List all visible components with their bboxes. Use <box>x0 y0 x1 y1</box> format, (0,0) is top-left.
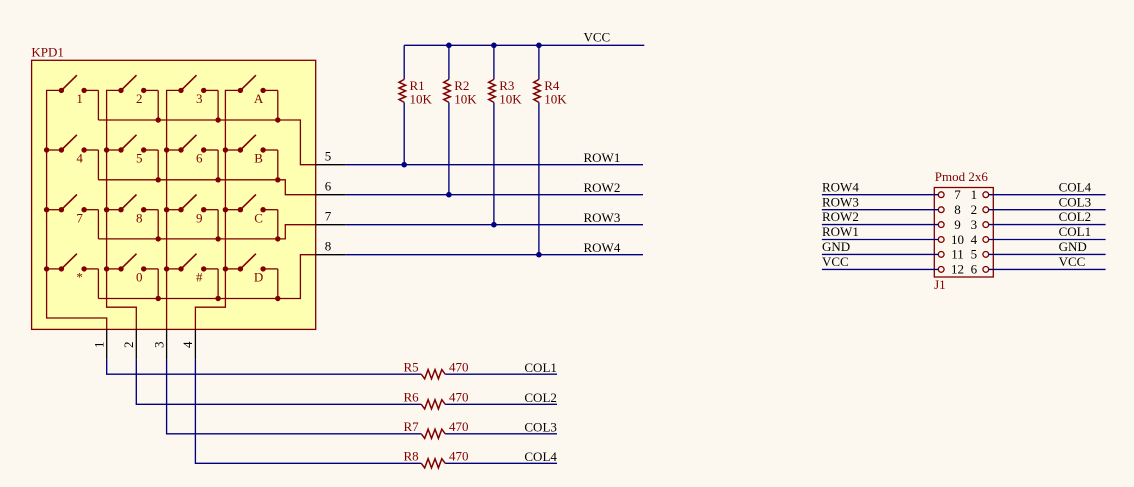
net label COL1 (J1 right) <box>1059 224 1092 239</box>
switch "7" of keypad (row 3, col 1) <box>59 195 99 239</box>
resistor R3 10K pull-up <box>489 45 497 227</box>
switch "#" of keypad (row 4, col 3) <box>178 254 218 299</box>
svg-text:ROW3: ROW3 <box>584 210 621 225</box>
wire net COL4 from pin 4 <box>195 359 557 463</box>
svg-text:8: 8 <box>136 210 143 225</box>
svg-text:ROW1: ROW1 <box>584 150 621 165</box>
svg-text:8: 8 <box>954 202 961 217</box>
resistor R2 10K pull-up <box>444 45 452 197</box>
wire net ROW3 <box>346 224 643 226</box>
net label VCC <box>584 30 611 45</box>
svg-text:10K: 10K <box>499 92 522 107</box>
wire COL2 column bus inside keypad <box>104 90 136 329</box>
net label ROW3 (J1 left) <box>822 194 859 209</box>
connector J1 body (Pmod 2x6) <box>934 188 993 278</box>
svg-text:GND: GND <box>822 239 850 254</box>
svg-text:ROW2: ROW2 <box>584 180 621 195</box>
pin 6 of J1 (right, VCC) <box>971 262 989 277</box>
switch "C" of keypad (row 3, col 4) <box>238 195 278 239</box>
designator label R1 <box>410 78 425 93</box>
switch "6" of keypad (row 2, col 3) <box>178 135 218 180</box>
svg-text:6: 6 <box>196 151 203 166</box>
svg-text:10: 10 <box>951 232 964 247</box>
comment label Pmod 2x6 <box>935 169 989 184</box>
wire net ROW1 <box>346 164 643 166</box>
net label ROW1 (J1 left) <box>822 224 859 239</box>
svg-text:10K: 10K <box>544 92 567 107</box>
svg-text:COL1: COL1 <box>524 360 557 375</box>
pin 1 of J1 (right, COL4) <box>971 187 989 202</box>
net label ROW2 <box>584 180 621 195</box>
svg-text:ROW2: ROW2 <box>822 209 859 224</box>
wire net VCC (J1 right) <box>989 268 1106 270</box>
svg-text:10K: 10K <box>454 92 477 107</box>
wire net COL3 from pin 3 <box>167 359 557 433</box>
svg-text:R8: R8 <box>404 448 419 463</box>
pin 5 of J1 (right, GND) <box>971 247 989 262</box>
net label COL2 <box>524 390 557 405</box>
value label 470 (R7) <box>449 419 469 434</box>
svg-text:4: 4 <box>971 232 978 247</box>
value label 470 (R6) <box>449 389 469 404</box>
svg-text:12: 12 <box>951 262 964 277</box>
value label 10K (R2) <box>454 92 477 107</box>
svg-text:1: 1 <box>92 342 107 349</box>
designator label R5 <box>404 359 419 374</box>
resistor R1 10K pull-up <box>399 45 407 167</box>
net label GND (J1 right) <box>1059 239 1087 254</box>
pin 9 of J1 (left, ROW2) <box>938 217 960 232</box>
value label 470 (R8) <box>449 448 469 463</box>
svg-text:VCC: VCC <box>584 30 611 45</box>
wire ROW2 collect line inside keypad <box>98 177 315 195</box>
wire net COL3 (J1 right) <box>989 209 1106 211</box>
svg-text:R6: R6 <box>404 389 420 404</box>
designator label R8 <box>404 448 419 463</box>
switch "3" of keypad (row 1, col 3) <box>178 75 218 120</box>
svg-text:2: 2 <box>121 342 136 349</box>
resistor R6 470 series <box>421 400 445 409</box>
wire COL3 column bus inside keypad <box>164 90 181 329</box>
net label ROW4 <box>584 240 621 255</box>
net label COL3 <box>524 419 557 434</box>
switch "5" of keypad (row 2, col 2) <box>118 135 158 180</box>
value label 10K (R1) <box>410 92 433 107</box>
pin 8 of J1 (left, ROW3) <box>938 202 960 217</box>
svg-text:A: A <box>254 91 264 106</box>
svg-text:*: * <box>76 270 83 285</box>
svg-text:7: 7 <box>954 187 961 202</box>
svg-text:Pmod 2x6: Pmod 2x6 <box>935 169 989 184</box>
wire net ROW1 (J1 left) <box>822 239 938 241</box>
svg-text:R5: R5 <box>404 359 419 374</box>
pin 7 of KPD1 (ROW3) <box>316 209 346 225</box>
svg-text:1: 1 <box>76 91 83 106</box>
wire net ROW3 (J1 left) <box>822 209 938 211</box>
pin 12 of J1 (left, VCC) <box>938 262 964 277</box>
pin 5 of KPD1 (ROW1) <box>316 149 346 165</box>
svg-text:9: 9 <box>954 217 961 232</box>
svg-text:COL3: COL3 <box>524 419 557 434</box>
switch "2" of keypad (row 1, col 2) <box>118 75 158 120</box>
wire net ROW4 <box>346 254 643 256</box>
designator label R2 <box>454 78 469 93</box>
wire ROW4 collect line inside keypad <box>98 255 315 301</box>
pin 3 of KPD1 (COL3) <box>151 329 166 359</box>
svg-text:COL4: COL4 <box>1059 179 1092 194</box>
svg-text:#: # <box>196 270 203 285</box>
svg-text:3: 3 <box>196 91 203 106</box>
svg-text:2: 2 <box>136 91 143 106</box>
pin 11 of J1 (left, GND) <box>938 247 963 262</box>
svg-text:C: C <box>254 210 263 225</box>
wire COL1 column bus inside keypad <box>44 90 107 329</box>
svg-text:11: 11 <box>951 247 964 262</box>
pin 2 of J1 (right, COL3) <box>971 202 989 217</box>
designator label J1 <box>934 277 946 292</box>
net label ROW4 (J1 left) <box>822 179 859 194</box>
pin 2 of KPD1 (COL2) <box>121 329 136 359</box>
svg-text:7: 7 <box>76 210 83 225</box>
switch "1" of keypad (row 1, col 1) <box>59 75 99 120</box>
svg-text:9: 9 <box>196 210 203 225</box>
wire net COL2 (J1 right) <box>989 224 1106 226</box>
svg-text:10K: 10K <box>410 92 433 107</box>
wire ROW1 collect line inside keypad <box>98 117 315 164</box>
svg-text:COL2: COL2 <box>1059 209 1092 224</box>
wire net COL1 (J1 right) <box>989 239 1106 241</box>
wire net ROW2 <box>346 194 643 196</box>
svg-text:470: 470 <box>449 389 469 404</box>
svg-text:COL1: COL1 <box>1059 224 1092 239</box>
power net VCC rail <box>404 43 644 49</box>
net label COL4 (J1 right) <box>1059 179 1092 194</box>
switch "A" of keypad (row 1, col 4) <box>238 75 278 120</box>
svg-text:470: 470 <box>449 359 469 374</box>
net label COL2 (J1 right) <box>1059 209 1092 224</box>
svg-text:VCC: VCC <box>1059 254 1086 269</box>
switch "0" of keypad (row 4, col 2) <box>118 254 158 299</box>
svg-text:7: 7 <box>325 209 332 224</box>
resistor R4 10K pull-up <box>534 45 542 257</box>
net label GND (J1 left) <box>822 239 850 254</box>
net label COL3 (J1 right) <box>1059 194 1092 209</box>
wire net COL1 from pin 1 <box>107 359 557 374</box>
keypad KPD1 body <box>32 60 316 329</box>
switch "*" of keypad (row 4, col 1) <box>59 254 99 299</box>
pin 4 of KPD1 (COL4) <box>180 329 195 359</box>
svg-text:KPD1: KPD1 <box>31 45 64 60</box>
svg-text:1: 1 <box>971 187 978 202</box>
switch "B" of keypad (row 2, col 4) <box>238 135 278 180</box>
svg-text:ROW3: ROW3 <box>822 194 859 209</box>
designator label R4 <box>544 78 560 93</box>
svg-text:470: 470 <box>449 419 469 434</box>
resistor R8 470 series <box>421 459 445 468</box>
svg-text:5: 5 <box>136 151 143 166</box>
designator label R6 <box>404 389 420 404</box>
svg-text:4: 4 <box>180 341 195 348</box>
net label VCC (J1 left) <box>822 254 849 269</box>
designator label R3 <box>499 78 514 93</box>
net label VCC (J1 right) <box>1059 254 1086 269</box>
wire net ROW2 (J1 left) <box>822 224 938 226</box>
svg-text:6: 6 <box>325 179 332 194</box>
wire net COL2 from pin 2 <box>136 359 557 404</box>
pin 7 of J1 (left, ROW4) <box>938 187 961 202</box>
svg-text:3: 3 <box>151 342 166 349</box>
net label ROW1 <box>584 150 621 165</box>
net label ROW2 (J1 left) <box>822 209 859 224</box>
svg-text:COL2: COL2 <box>524 390 557 405</box>
svg-text:GND: GND <box>1059 239 1087 254</box>
svg-text:D: D <box>254 270 263 285</box>
wire net COL4 (J1 right) <box>989 194 1106 196</box>
svg-text:0: 0 <box>136 270 143 285</box>
wire COL4 column bus inside keypad <box>195 90 240 329</box>
svg-text:ROW1: ROW1 <box>822 224 859 239</box>
svg-text:ROW4: ROW4 <box>584 240 621 255</box>
svg-text:3: 3 <box>971 217 978 232</box>
pin 3 of J1 (right, COL2) <box>971 217 989 232</box>
switch "9" of keypad (row 3, col 3) <box>178 195 218 239</box>
svg-text:R7: R7 <box>404 419 420 434</box>
pin 10 of J1 (left, ROW1) <box>938 232 964 247</box>
svg-text:6: 6 <box>971 262 978 277</box>
value label 10K (R3) <box>499 92 522 107</box>
svg-text:COL3: COL3 <box>1059 194 1092 209</box>
switch "8" of keypad (row 3, col 2) <box>118 195 158 239</box>
switch "D" of keypad (row 4, col 4) <box>238 254 278 299</box>
svg-text:5: 5 <box>971 247 978 262</box>
svg-text:ROW4: ROW4 <box>822 179 859 194</box>
resistor R5 470 series <box>421 370 445 379</box>
svg-text:B: B <box>254 151 263 166</box>
svg-text:VCC: VCC <box>822 254 849 269</box>
value label 10K (R4) <box>544 92 567 107</box>
svg-text:8: 8 <box>325 239 332 254</box>
wire net GND (J1 left) <box>822 253 938 255</box>
wire ROW3 collect line inside keypad <box>98 225 315 242</box>
pin 1 of KPD1 (COL1) <box>92 329 107 359</box>
net label ROW3 <box>584 210 621 225</box>
svg-text:4: 4 <box>76 151 83 166</box>
net label COL4 <box>524 449 557 464</box>
designator label R7 <box>404 419 420 434</box>
pin 6 of KPD1 (ROW2) <box>316 179 346 195</box>
svg-text:J1: J1 <box>934 277 946 292</box>
svg-text:COL4: COL4 <box>524 449 557 464</box>
value label 470 (R5) <box>449 359 469 374</box>
svg-text:470: 470 <box>449 448 469 463</box>
wire net GND (J1 right) <box>989 253 1106 255</box>
switch "4" of keypad (row 2, col 1) <box>59 135 99 180</box>
pin 4 of J1 (right, COL1) <box>971 232 989 247</box>
svg-text:2: 2 <box>971 202 978 217</box>
pin 8 of KPD1 (ROW4) <box>316 239 346 255</box>
designator label KPD1 <box>31 45 64 60</box>
wire net VCC (J1 left) <box>822 268 938 270</box>
svg-text:5: 5 <box>325 149 332 164</box>
wire net ROW4 (J1 left) <box>822 194 938 196</box>
resistor R7 470 series <box>421 429 445 438</box>
net label COL1 <box>524 360 557 375</box>
